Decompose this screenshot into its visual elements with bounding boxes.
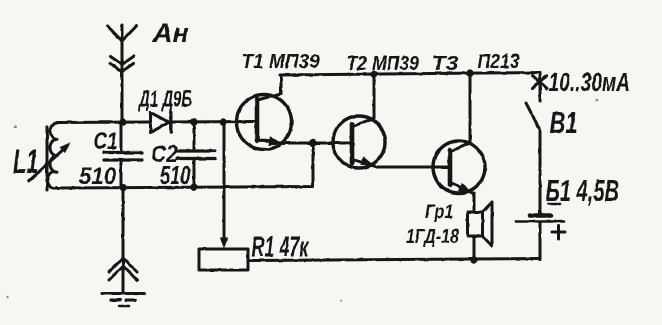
svg-text:10..30мА: 10..30мА	[549, 67, 631, 97]
svg-text:Ан: Ан	[152, 18, 189, 48]
svg-text:Гр1: Гр1	[425, 201, 453, 223]
svg-text:Б1 4,5В: Б1 4,5В	[546, 173, 620, 209]
svg-text:R1 47к: R1 47к	[252, 231, 310, 263]
svg-text:Т1 МП39: Т1 МП39	[242, 50, 320, 73]
svg-text:С1: С1	[94, 127, 118, 155]
svg-text:Д1 Д9Б: Д1 Д9Б	[137, 86, 191, 112]
svg-text:510: 510	[79, 162, 116, 189]
svg-text:1ГД-18: 1ГД-18	[406, 224, 460, 247]
svg-text:L1: L1	[13, 143, 38, 181]
svg-text:П213: П213	[478, 51, 520, 74]
svg-text:В1: В1	[550, 105, 578, 140]
svg-text:Т3: Т3	[432, 51, 459, 74]
svg-text:Т2 МП39: Т2 МП39	[347, 53, 420, 76]
svg-text:510: 510	[160, 161, 191, 190]
